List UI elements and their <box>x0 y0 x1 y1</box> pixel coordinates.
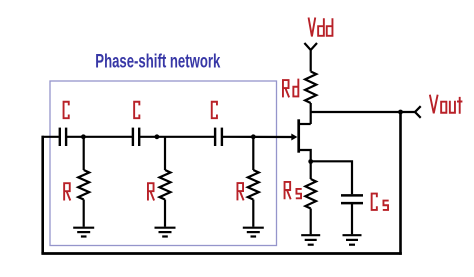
wire: drain to Vout <box>311 111 415 113</box>
wire: source node to Cs <box>311 161 352 194</box>
node A junction dot (C1/R1) <box>81 134 86 139</box>
label Vdd <box>309 18 333 37</box>
phase-shift network box <box>50 81 277 246</box>
ground for R2 <box>155 228 176 237</box>
capacitor C1 plates <box>59 128 61 146</box>
label C1 <box>64 102 69 118</box>
capacitor C3 plates <box>214 128 216 146</box>
ground for R1 <box>73 228 94 237</box>
label Vout <box>430 95 463 114</box>
wire: main gate line segment 2 <box>66 136 133 138</box>
label C2 <box>134 102 139 118</box>
ground for R3 <box>243 228 264 237</box>
node S junction dot (source/Rs/Cs) <box>308 159 313 164</box>
resistor Rd zigzag <box>305 72 316 104</box>
wire: main gate line segment 4 (to gate arrow) <box>222 136 293 138</box>
ground for Rs <box>301 235 320 245</box>
resistor R3 lead <box>252 137 254 170</box>
transistor Q1 gate arrow <box>291 134 297 141</box>
wire: feedback bottom horizontal <box>41 252 401 255</box>
resistor Rs lead <box>310 162 312 180</box>
wire: R1 to ground <box>83 200 85 227</box>
label R3 <box>237 183 243 200</box>
capacitor Cs top plate <box>341 194 363 197</box>
wire: main gate line segment 1 <box>42 136 59 138</box>
resistor R2 lead <box>164 137 166 170</box>
wire: Rs to ground <box>310 209 312 235</box>
node B junction dot (C2/R2) <box>155 134 160 139</box>
wire: Vdd to Rd <box>310 50 312 72</box>
label R1 <box>64 183 70 200</box>
transistor Q1 source lead <box>299 150 311 162</box>
wire: Cs to ground <box>351 203 353 234</box>
wire: R2 to ground <box>164 200 166 227</box>
wire: R3 to ground <box>252 200 254 227</box>
label Cs <box>372 194 389 210</box>
wire: main gate line segment 3 <box>139 136 215 138</box>
label Rd <box>283 79 298 98</box>
resistor R1 zigzag <box>78 170 89 200</box>
capacitor Cs bottom plate <box>341 202 363 205</box>
resistor R3 zigzag <box>248 170 259 200</box>
wire: feedback right vertical <box>399 112 402 255</box>
label C3 <box>212 102 217 118</box>
terminal Vout chevron <box>415 106 421 118</box>
svg-text:Phase-shift network: Phase-shift network <box>95 51 221 73</box>
wire: Rd to drain <box>310 103 312 124</box>
resistor R2 zigzag <box>160 170 171 200</box>
terminal Vdd chevron <box>304 43 317 50</box>
transistor Q1 drain lead <box>299 123 311 125</box>
capacitor C2 plates <box>132 128 134 146</box>
label Rs <box>285 182 302 199</box>
wire: feedback left vertical <box>41 136 44 254</box>
label R2 <box>148 183 154 200</box>
transistor Q1 channel bar <box>297 119 300 152</box>
ground for Cs <box>343 235 362 245</box>
node C junction dot (C3/R3) <box>251 134 256 139</box>
resistor R1 lead <box>83 137 85 170</box>
resistor Rs zigzag <box>305 179 316 209</box>
node Vout junction dot (feedback tap) <box>398 110 403 115</box>
